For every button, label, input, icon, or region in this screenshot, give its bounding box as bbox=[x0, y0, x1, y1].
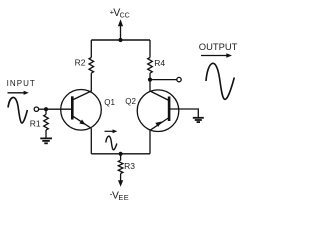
wire: input terminal to node bbox=[39, 108, 46, 110]
+VCC label bbox=[110, 7, 130, 19]
tail signal arrow bbox=[105, 129, 118, 133]
resistor R1 bbox=[44, 109, 49, 138]
svg-text:Q2: Q2 bbox=[125, 97, 136, 106]
svg-text:R4: R4 bbox=[154, 58, 165, 68]
svg-text:Q1: Q1 bbox=[104, 98, 115, 107]
ground (Q2 base) bbox=[193, 118, 204, 122]
node: emitter rail junction bbox=[119, 152, 123, 156]
node: output terminal bbox=[177, 77, 181, 81]
svg-text:R1: R1 bbox=[30, 119, 41, 129]
transistor Q1 bbox=[61, 90, 102, 131]
+VCC supply bbox=[118, 19, 123, 40]
node: VCC rail junction bbox=[118, 38, 122, 42]
wire: output tap bbox=[150, 79, 177, 81]
wire: Q1 emitter bbox=[90, 128, 92, 154]
resistor R3 bbox=[118, 154, 123, 181]
input arrow bbox=[8, 91, 29, 95]
output arrow bbox=[201, 53, 232, 57]
svg-text:R2: R2 bbox=[75, 58, 86, 68]
input signal source (sine) bbox=[8, 97, 27, 123]
wire: R4 junction to Q2 collector bbox=[149, 80, 151, 91]
svg-text:R3: R3 bbox=[124, 161, 135, 171]
wire: Q2 base to ground bbox=[169, 109, 198, 117]
node: collector Q2 output junction bbox=[148, 78, 152, 82]
wire: input node to Q1 base bbox=[46, 108, 72, 110]
wire: top VCC rail bbox=[91, 39, 150, 41]
resistor R2 bbox=[89, 40, 94, 92]
resistor R4 bbox=[148, 40, 153, 80]
transistor Q2 bbox=[137, 90, 179, 132]
wire: Q2 emitter bbox=[149, 130, 151, 154]
node: input junction bbox=[44, 107, 48, 111]
output signal source (sine) bbox=[206, 63, 234, 99]
-VEE supply bbox=[118, 180, 123, 187]
svg-text:OUTPUT: OUTPUT bbox=[199, 41, 238, 52]
ground (R1) bbox=[40, 138, 52, 143]
svg-text:INPUT: INPUT bbox=[7, 79, 36, 88]
tail signal source (sine) bbox=[106, 136, 117, 150]
svg-text:EE: EE bbox=[118, 193, 129, 202]
-VEE label bbox=[110, 190, 129, 203]
svg-text:CC: CC bbox=[120, 13, 130, 20]
node: input terminal bbox=[34, 107, 38, 111]
wire: emitter rail bbox=[91, 153, 150, 155]
